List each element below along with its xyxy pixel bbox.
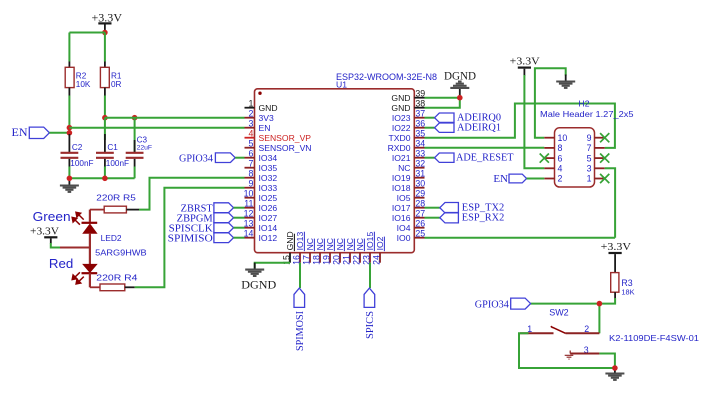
junction ground node: [612, 365, 618, 371]
U1 pin 12 (IO27): [245, 217, 255, 219]
U1 pin 4 (SENSOR_VP): [245, 137, 255, 139]
svg-text:27: 27: [415, 209, 425, 219]
svg-text:IO16: IO16: [392, 213, 411, 223]
svg-text:13: 13: [244, 219, 254, 229]
svg-text:220R R5: 220R R5: [96, 194, 136, 203]
svg-text:2: 2: [558, 174, 563, 184]
U1 pin 8 (IO32): [245, 177, 255, 179]
svg-text:220R R4: 220R R4: [96, 274, 138, 283]
svg-text:NC: NC: [325, 238, 335, 250]
junction gnd rail at C1: [102, 176, 108, 182]
U1 pin 30 (IO18): [414, 187, 424, 189]
U1 pin 33 (IO21): [414, 157, 424, 159]
svg-text:4: 4: [558, 164, 563, 174]
svg-text:+3.3V: +3.3V: [510, 56, 540, 67]
svg-text:20: 20: [331, 255, 341, 265]
svg-text:IO32: IO32: [259, 173, 278, 183]
svg-text:22uF: 22uF: [137, 144, 153, 151]
svg-text:19: 19: [321, 255, 331, 265]
svg-text:100nF: 100nF: [70, 159, 93, 168]
svg-text:ESP_RX2: ESP_RX2: [462, 213, 505, 224]
svg-text:IO12: IO12: [259, 233, 278, 243]
U1 pin 11 (IO26): [245, 207, 255, 209]
svg-text:IO5: IO5: [397, 193, 411, 203]
svg-text:32: 32: [415, 159, 425, 169]
svg-text:IO22: IO22: [392, 123, 411, 133]
svg-text:H2: H2: [579, 99, 590, 109]
U1 pin 29 (IO5): [414, 197, 424, 199]
wire EN to U1 pin 3: [69, 127, 244, 129]
svg-text:SENSOR_VP: SENSOR_VP: [259, 133, 312, 143]
U1 pin 23 (IO15): [369, 253, 371, 263]
wire U1 pin 16 to SPIMOSI: [299, 263, 301, 288]
junction 3V3 at C1: [102, 115, 108, 121]
svg-text:EN: EN: [12, 125, 28, 139]
svg-text:NC: NC: [305, 238, 315, 250]
svg-text:ADEIRQ1: ADEIRQ1: [457, 122, 501, 133]
ground (below capacitors): [68, 178, 70, 185]
svg-text:6: 6: [248, 149, 253, 159]
junction 3V3 at C3: [132, 115, 138, 121]
svg-text:SPIMOSI: SPIMOSI: [295, 310, 306, 351]
svg-text:IO4: IO4: [397, 223, 411, 233]
svg-text:100nF: 100nF: [106, 159, 129, 168]
svg-text:26: 26: [415, 219, 425, 229]
junction gnd rail at C2: [67, 176, 73, 182]
no-connect X on H2 pin 6: [540, 154, 549, 163]
svg-text:IO34: IO34: [259, 153, 278, 163]
U1 pin 24 (IO2): [379, 253, 381, 263]
svg-text:9: 9: [587, 133, 592, 143]
svg-text:IO26: IO26: [259, 203, 278, 213]
wire +3.3V to LED2 common: [51, 243, 62, 248]
svg-text:IO0: IO0: [397, 233, 411, 243]
U1 pin 5 (SENSOR_VN): [245, 147, 255, 149]
wire U1 pin 39 to DGND: [425, 97, 460, 99]
U1 pin 32 (NC): [414, 167, 424, 169]
svg-text:Green: Green: [33, 210, 71, 224]
svg-text:8: 8: [558, 143, 563, 153]
wire R5 to U1 pin 8 (IO32): [139, 178, 245, 210]
wire H2 pin 3 to IO0: [605, 168, 615, 237]
wire IO0: U1 pin 25: [425, 237, 616, 239]
capacitor C3: [134, 118, 136, 152]
U1 pin 19 (NC): [329, 253, 331, 263]
global label ESP_RX2 (U1 pin 27): [425, 217, 440, 219]
svg-text:IO33: IO33: [259, 183, 278, 193]
svg-text:33: 33: [415, 149, 425, 159]
wire TXD0: U1 pin 35 to H2 pin 7: [425, 104, 615, 148]
svg-text:IO25: IO25: [259, 193, 278, 203]
no-connect X on H2 pin 9: [600, 133, 609, 142]
svg-text:NC: NC: [335, 238, 345, 250]
junction EN node upper: [67, 125, 73, 131]
svg-text:TXD0: TXD0: [389, 133, 411, 143]
U1 pin 1 (GND): [245, 107, 255, 109]
svg-text:LED2: LED2: [101, 233, 122, 243]
U1 pin 28 (IO17): [414, 207, 424, 209]
svg-text:C3: C3: [137, 135, 148, 144]
svg-text:NC: NC: [398, 163, 410, 173]
svg-text:10K: 10K: [76, 80, 91, 89]
capacitor C2: [68, 134, 70, 152]
svg-text:GND: GND: [391, 93, 410, 103]
H2 pin 4: [544, 167, 554, 169]
svg-text:21: 21: [341, 255, 351, 265]
svg-text:14: 14: [244, 229, 254, 239]
U1 pin 13 (IO14): [245, 227, 255, 229]
junction EN node lower: [67, 130, 73, 136]
svg-text:RXD0: RXD0: [388, 143, 411, 153]
svg-text:3: 3: [587, 164, 592, 174]
svg-text:35: 35: [415, 129, 425, 139]
U1 pin 35 (TXD0): [414, 137, 424, 139]
ground (bottom right): [614, 368, 616, 373]
svg-text:28: 28: [415, 199, 425, 209]
wire H2 pin 10 to ground: [535, 68, 566, 138]
svg-text:NC: NC: [345, 238, 355, 250]
svg-text:SPIMISO: SPIMISO: [168, 234, 213, 245]
U1 pin 38 (GND): [414, 107, 424, 109]
svg-text:IO19: IO19: [392, 173, 411, 183]
svg-text:5: 5: [248, 139, 253, 149]
SW2 pin 3 frame mark: [565, 351, 574, 360]
wire R3 bottom to GPIO34 net: [614, 292, 616, 298]
svg-text:ADE_RESET: ADE_RESET: [456, 152, 514, 163]
wire U1 pin 15 to DGND: [255, 263, 290, 269]
LED2 red emission arrows: [72, 272, 84, 284]
svg-text:DGND: DGND: [241, 280, 276, 292]
svg-text:SENSOR_VN: SENSOR_VN: [259, 143, 312, 153]
svg-text:25: 25: [415, 229, 425, 239]
svg-text:36: 36: [415, 119, 425, 129]
svg-text:12: 12: [244, 209, 254, 219]
resistor R1: [100, 67, 109, 87]
U1 pin 21 (NC): [349, 253, 351, 263]
U1 pin 34 (RXD0): [414, 147, 424, 149]
U1 pin 9 (IO33): [245, 187, 255, 189]
svg-text:0R: 0R: [111, 80, 122, 89]
svg-text:18: 18: [311, 255, 321, 265]
U1 pin 10 (IO25): [245, 197, 255, 199]
U1 pin 37 (IO23): [414, 117, 424, 119]
U1 pin 25 (IO0): [414, 237, 424, 239]
svg-text:10: 10: [558, 133, 568, 143]
svg-text:7: 7: [248, 159, 253, 169]
svg-text:29: 29: [415, 189, 425, 199]
svg-text:3V3: 3V3: [259, 113, 275, 123]
wire down to R1: [104, 33, 106, 62]
svg-text:17: 17: [301, 255, 311, 265]
svg-text:1: 1: [248, 99, 253, 109]
ground DGND (top right): [459, 88, 461, 97]
H2 pin 9: [595, 137, 605, 139]
U1 pin 2 (3V3): [245, 117, 255, 119]
svg-text:IO35: IO35: [259, 163, 278, 173]
global label SPICS: [364, 288, 375, 307]
wire 3V3 rail to U1 pin 2: [105, 117, 245, 119]
svg-text:IO15: IO15: [365, 232, 375, 251]
svg-text:18K: 18K: [621, 288, 634, 297]
svg-text:24: 24: [371, 255, 381, 265]
capacitor C1: [104, 118, 106, 140]
svg-text:+3.3V: +3.3V: [30, 227, 59, 238]
svg-text:2: 2: [248, 109, 253, 119]
svg-text:K2-1109DE-F4SW-01: K2-1109DE-F4SW-01: [609, 333, 699, 343]
junction at +3.3V node: [102, 30, 108, 36]
wire +3.3V rail to R2: [69, 32, 105, 34]
svg-text:U1: U1: [336, 80, 347, 90]
wire RXD0: U1 pin 34 to H2 pin 8: [425, 147, 545, 149]
ground (header): [565, 75, 567, 82]
svg-text:1: 1: [587, 174, 592, 184]
svg-text:IO2: IO2: [375, 236, 385, 250]
H2 pin 10: [544, 137, 554, 139]
wire R1 bottom to 3V3 node: [104, 88, 106, 96]
H2 pin 7: [595, 147, 605, 149]
connector H2 Male Header 1.27_2x5 body: [555, 128, 595, 187]
svg-text:5ARG9HWB: 5ARG9HWB: [95, 247, 147, 257]
wire capacitor ground rail: [68, 167, 70, 179]
wire junction to SW2 pin 2: [598, 304, 600, 334]
no-connect X on H2 pin 5: [600, 154, 609, 163]
U1 pin 39 (GND): [414, 97, 424, 99]
global label ADE_RESET (U1 pin 33): [425, 157, 435, 159]
H2 pin 1: [595, 178, 605, 180]
svg-text:IO13: IO13: [295, 232, 305, 251]
svg-text:Red: Red: [49, 257, 73, 271]
svg-text:10: 10: [244, 189, 254, 199]
svg-text:34: 34: [415, 139, 425, 149]
svg-text:R3: R3: [621, 278, 632, 288]
svg-text:IO27: IO27: [259, 213, 278, 223]
svg-text:5: 5: [587, 153, 592, 163]
wire U1 pin 23 to SPICS: [369, 263, 371, 288]
svg-text:4: 4: [248, 129, 253, 139]
wire SW2 pin 1 to ground rail: [519, 333, 615, 368]
wire down to R2: [68, 33, 70, 62]
svg-text:DGND: DGND: [444, 70, 476, 82]
svg-text:SPICS: SPICS: [365, 311, 376, 339]
global label ADEIRQ0 (U1 pin 37): [425, 117, 435, 119]
junction GPIO34/SW2 node: [597, 301, 603, 307]
U1 pin 31 (IO19): [414, 177, 424, 179]
global label SPIMOSI: [294, 288, 305, 307]
svg-text:C2: C2: [72, 143, 83, 152]
U1 pin 18 (NC): [319, 253, 321, 263]
wire SW2 pin 3 to ground rail: [599, 354, 615, 369]
U1 pin 36 (IO22): [414, 127, 424, 129]
no-connect X on H2 pin 1: [600, 174, 609, 183]
U1 pin 6 (IO34): [245, 157, 255, 159]
IC U1 ESP32-WROOM-32E-N8 body: [255, 89, 415, 253]
svg-text:GND: GND: [259, 103, 278, 113]
U1 pin 3 (EN): [245, 127, 255, 129]
svg-text:NC: NC: [315, 238, 325, 250]
U1 pin 20 (NC): [339, 253, 341, 263]
wire EN flag to node: [49, 132, 69, 134]
U1 pin 15 (GND): [289, 253, 291, 263]
global label ADEIRQ1 (U1 pin 36): [425, 127, 435, 129]
svg-text:SW2: SW2: [549, 308, 569, 318]
H2 pin 8: [544, 147, 554, 149]
svg-text:31: 31: [415, 169, 425, 179]
wire U1 pin 38 to DGND: [425, 98, 460, 108]
H2 pin 2: [544, 178, 554, 180]
junction DGND node: [457, 95, 463, 101]
svg-text:IO21: IO21: [392, 153, 411, 163]
svg-text:GND: GND: [391, 103, 410, 113]
svg-text:ESP32-WROOM-32E-N8: ESP32-WROOM-32E-N8: [336, 72, 437, 83]
U1 pin 16 (IO13): [299, 253, 301, 263]
svg-text:3: 3: [248, 119, 253, 129]
svg-text:39: 39: [415, 89, 425, 99]
global label ESP_TX2 (U1 pin 28): [425, 207, 440, 209]
U1 pin 14 (IO12): [245, 237, 255, 239]
svg-text:IO23: IO23: [392, 113, 411, 123]
wire R2 bottom to EN node: [68, 88, 70, 96]
svg-text:GPIO34: GPIO34: [475, 299, 510, 310]
svg-text:IO17: IO17: [392, 203, 411, 213]
resistor R3: [611, 273, 619, 293]
svg-text:NC: NC: [355, 238, 365, 250]
svg-text:IO14: IO14: [259, 223, 278, 233]
H2 pin 5: [595, 157, 605, 159]
U1 pin 26 (IO4): [414, 227, 424, 229]
U1 pin 22 (NC): [359, 253, 361, 263]
svg-text:8: 8: [248, 169, 253, 179]
svg-text:7: 7: [587, 143, 592, 153]
wire +3.3V to H2 pin 4: [524, 75, 544, 168]
svg-text:30: 30: [415, 179, 425, 189]
svg-text:Male Header 1.27_2x5: Male Header 1.27_2x5: [540, 109, 634, 119]
wire R4 to U1 pin 9 (IO33): [135, 188, 245, 288]
svg-text:C1: C1: [107, 143, 118, 152]
LED2 green emission arrows: [72, 212, 83, 224]
resistor R2: [65, 67, 74, 87]
ground DGND (below U1): [254, 263, 256, 269]
H2 pin 6: [544, 157, 554, 159]
svg-text:GPIO34: GPIO34: [179, 153, 214, 164]
svg-text:37: 37: [415, 109, 425, 119]
U1 pin 17 (NC): [309, 253, 311, 263]
H2 pin 3: [595, 167, 605, 169]
svg-text:38: 38: [415, 99, 425, 109]
svg-text:EN: EN: [259, 123, 271, 133]
svg-text:6: 6: [558, 153, 563, 163]
U1 pin 7 (IO35): [245, 167, 255, 169]
LED LED2 (dual green/red): [89, 210, 91, 222]
svg-text:11: 11: [244, 199, 253, 209]
svg-text:IO18: IO18: [392, 183, 411, 193]
svg-text:+3.3V: +3.3V: [601, 241, 631, 253]
U1 pin 27 (IO16): [414, 217, 424, 219]
svg-text:GND: GND: [285, 231, 295, 250]
svg-text:EN: EN: [493, 173, 508, 185]
svg-text:22: 22: [351, 255, 361, 265]
svg-text:9: 9: [248, 179, 253, 189]
